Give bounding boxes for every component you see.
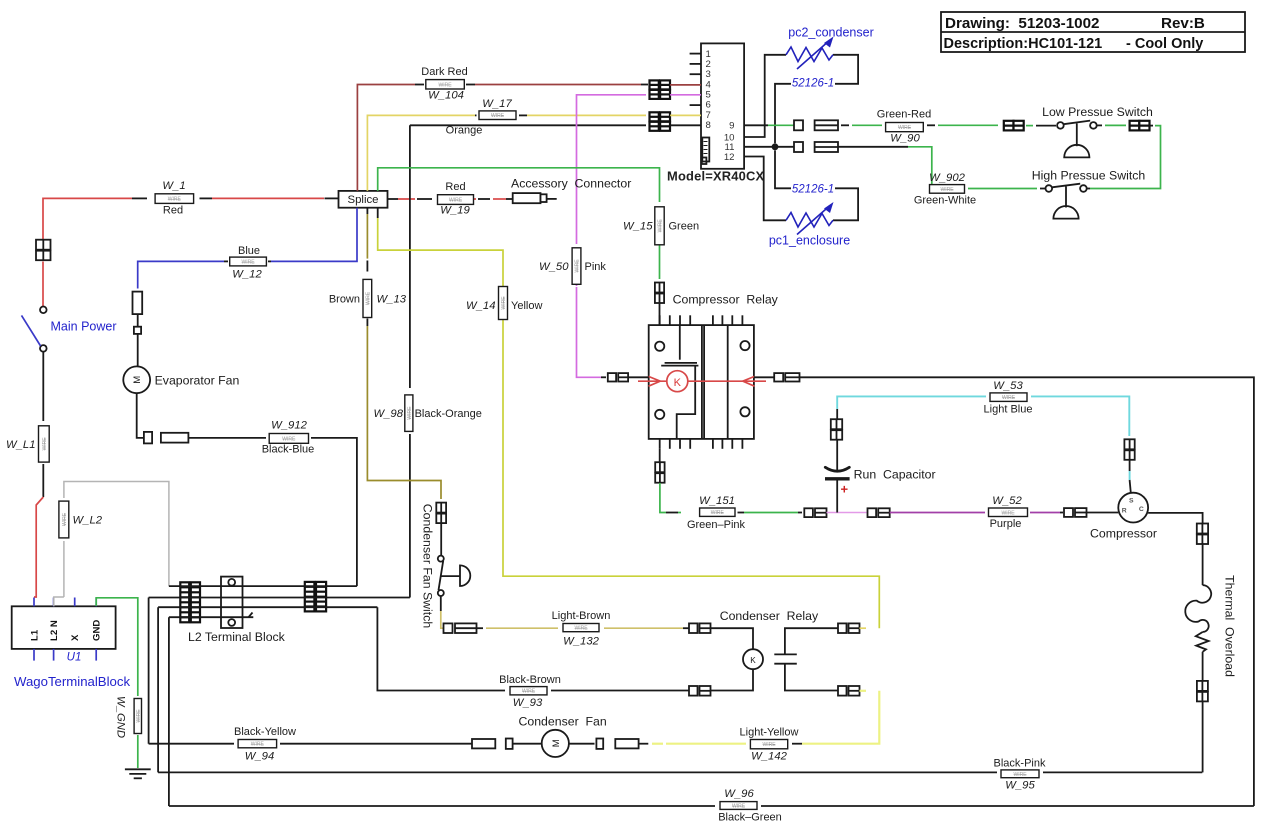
svg-text:W_95: W_95 (1005, 780, 1035, 792)
svg-text:L2 Terminal Block: L2 Terminal Block (188, 630, 286, 644)
svg-text:WIRE: WIRE (438, 82, 452, 88)
svg-text:Thermal Overload: Thermal Overload (1223, 575, 1237, 677)
connector fan switch (436, 503, 446, 523)
svg-text:52126-1: 52126-1 (792, 184, 834, 196)
svg-text:Light-Yellow: Light-Yellow (740, 727, 799, 739)
wire compressor C to overload (1148, 513, 1203, 524)
connector condenser fan right (569, 743, 595, 745)
label W_14 Yellow (499, 287, 508, 320)
wire W_104 Dark Red (357, 85, 415, 191)
connector compressor R (1064, 508, 1087, 517)
label W_12 Blue (230, 257, 267, 266)
connector main power top (36, 240, 51, 261)
svg-text:Condenser Relay: Condenser Relay (720, 609, 819, 623)
svg-text:Rev:B: Rev:B (1161, 15, 1205, 32)
connector stack L2TB left (180, 582, 200, 622)
svg-text:Dark Red: Dark Red (421, 66, 467, 78)
wire relay bottom to W_151 (659, 449, 661, 462)
wire W_90 Green-Red (841, 124, 849, 126)
svg-text:W_17: W_17 (482, 98, 512, 110)
pin 3 stub (690, 73, 701, 75)
wire pin5 Pink W_50 (577, 95, 647, 244)
pin 6 stub (690, 104, 701, 106)
motor M1 Evaporator Fan (123, 366, 150, 393)
svg-text:WIRE: WIRE (42, 437, 48, 451)
label W_142 Light-Yellow (750, 740, 787, 749)
wire pin5 stub (670, 94, 701, 96)
wire W_53 Light Blue (836, 409, 838, 419)
svg-text:W_90: W_90 (890, 133, 920, 145)
svg-text:Green: Green (669, 221, 700, 233)
fuse evaporator (133, 292, 143, 315)
svg-text:WIRE: WIRE (282, 436, 296, 442)
svg-text:W_912: W_912 (271, 420, 308, 432)
svg-text:Pink: Pink (585, 261, 607, 273)
svg-text:Yellow: Yellow (511, 300, 542, 312)
ground (125, 769, 151, 778)
svg-text:WIRE: WIRE (1001, 510, 1015, 516)
connector Accessory Connector (513, 193, 557, 203)
connector run cap top (831, 419, 842, 440)
terminal block L2 Terminal Block (221, 577, 243, 628)
relay K1 coil (667, 371, 688, 392)
wire switch to W_132 (440, 596, 442, 611)
wire relay coil bottom (711, 669, 754, 690)
wire pin10 to pc2_condenser (744, 55, 786, 137)
svg-text:WIRE: WIRE (762, 742, 776, 748)
label W_L1 (39, 426, 50, 462)
svg-text:WIRE: WIRE (365, 291, 371, 305)
svg-text:WIRE: WIRE (940, 187, 954, 193)
wire W_912 Black-Blue (137, 393, 144, 438)
svg-text:W_142: W_142 (751, 751, 788, 763)
svg-text:WIRE: WIRE (501, 296, 507, 310)
svg-text:Light Blue: Light Blue (984, 404, 1033, 416)
connector block pins 4-5 (650, 80, 671, 99)
svg-text:9: 9 (729, 121, 734, 132)
switch S3 Condenser Fan Switch (438, 556, 471, 596)
svg-text:Main Power: Main Power (51, 320, 117, 334)
label W_53 Light Blue (990, 393, 1027, 402)
wire LPS right (1097, 124, 1102, 126)
svg-text:WIRE: WIRE (62, 512, 68, 526)
label W_902 Green-White (930, 185, 965, 194)
wire into relay (659, 303, 661, 325)
svg-text:Light-Brown: Light-Brown (552, 610, 611, 622)
wire pink segment (827, 512, 867, 514)
svg-text:WIRE: WIRE (575, 259, 581, 273)
wire to fan switch (440, 524, 442, 556)
svg-text:WIRE: WIRE (241, 260, 255, 266)
svg-text:Condenser Fan Switch: Condenser Fan Switch (421, 504, 435, 629)
connector condenser fan left (472, 739, 495, 748)
wire pin12 to pc1_enclosure (744, 157, 786, 221)
wire W_132 Light-Brown (477, 627, 484, 629)
svg-text:L1: L1 (30, 629, 41, 641)
label 52126-1 (pc1) (791, 183, 835, 194)
svg-text:WIRE: WIRE (732, 804, 746, 810)
connector relay contact top (838, 623, 860, 633)
capacitor C1 Run Capacitor (825, 440, 850, 513)
wire W_17 Orange (367, 115, 475, 190)
svg-text:X: X (70, 634, 81, 641)
svg-text:Green-White: Green-White (914, 195, 976, 207)
connector overload bottom (1197, 681, 1208, 702)
svg-text:K: K (750, 656, 756, 665)
wire L2TB row2 (149, 597, 410, 599)
wire pc1 right side (775, 150, 858, 220)
svg-text:W_14: W_14 (466, 300, 496, 312)
svg-text:W_104: W_104 (428, 90, 464, 102)
wire to Wago L1 (34, 497, 43, 597)
svg-text:52126-1: 52126-1 (792, 78, 834, 90)
connector block pins 7-8 (650, 112, 671, 131)
wire pin11 stub (744, 146, 794, 148)
svg-text:W_132: W_132 (563, 636, 600, 648)
svg-text:R: R (1122, 508, 1127, 515)
svg-text:Blue: Blue (238, 245, 260, 257)
connector overload top (1197, 524, 1208, 545)
label W_132 Light-Brown (563, 624, 599, 632)
wire relay coil top (711, 628, 754, 649)
connector relay top (655, 283, 664, 304)
connector W_132 left (444, 623, 477, 633)
svg-text:Purple: Purple (990, 518, 1022, 530)
wire W_1 Red (43, 198, 132, 239)
svg-text:Compressor: Compressor (1090, 527, 1157, 541)
svg-text:WIRE: WIRE (251, 742, 265, 748)
wire to switch (42, 262, 44, 307)
wire to LPS (1026, 125, 1033, 127)
wire fuse to motor (137, 314, 139, 327)
svg-text:12: 12 (724, 152, 735, 163)
svg-text:Low Pressue Switch: Low Pressue Switch (1042, 105, 1153, 119)
svg-text:WIRE: WIRE (658, 219, 664, 233)
svg-text:WIRE: WIRE (407, 406, 413, 420)
thermistor pc1_enclosure 52126-1 (786, 202, 834, 235)
svg-text:WIRE: WIRE (136, 709, 142, 723)
svg-text:Brown: Brown (329, 294, 360, 306)
svg-text:Splice: Splice (347, 194, 378, 206)
connector LPS right (1130, 121, 1150, 131)
wire W_L1 (42, 352, 44, 421)
wire W_96 riser (168, 617, 170, 806)
svg-text:W_L1: W_L1 (6, 439, 36, 451)
wire pin4 stub (670, 84, 701, 86)
junction pin11 node (772, 143, 779, 150)
svg-text:Evaporator Fan: Evaporator Fan (155, 374, 240, 388)
connector compressor S (1124, 439, 1134, 460)
wire W_142 Light-Yellow (639, 743, 649, 745)
splice (339, 191, 388, 208)
switch S2 High Pressure Switch (1046, 184, 1087, 219)
wire W_19 Red to accessory (388, 198, 399, 200)
svg-text:pc2_condenser: pc2_condenser (788, 26, 873, 40)
svg-text:8: 8 (706, 120, 711, 131)
relay contact (774, 628, 838, 690)
compressor M3 (1118, 493, 1148, 523)
connector small evap (134, 327, 141, 334)
svg-text:Black-Yellow: Black-Yellow (234, 726, 296, 738)
svg-text:W_L2: W_L2 (73, 515, 103, 527)
wire W_902 Green-White (1040, 188, 1046, 190)
svg-text:WIRE: WIRE (1013, 772, 1027, 778)
svg-text:Green-Red: Green-Red (877, 109, 931, 121)
svg-text:W_50: W_50 (539, 261, 569, 273)
label W_GND (134, 699, 142, 734)
svg-text:Green–Pink: Green–Pink (687, 519, 746, 531)
connector relay coil left (608, 373, 628, 381)
wire W_94 Black-Yellow (149, 743, 234, 745)
svg-text:WIRE: WIRE (898, 125, 912, 131)
svg-text:GND: GND (92, 620, 103, 641)
connector pin11 (794, 142, 838, 152)
label W_93 Black-Brown (510, 687, 547, 695)
label W_1 Red (155, 194, 194, 204)
svg-text:WIRE: WIRE (491, 113, 505, 119)
connector relay coil bottom (689, 686, 711, 696)
wire W_151 Green-Pink (660, 483, 666, 513)
svg-text:Black-Brown: Black-Brown (499, 674, 561, 686)
svg-text:Drawing: 51203-1002: Drawing: 51203-1002 (945, 15, 1100, 32)
connector LPS left (1004, 121, 1024, 131)
svg-text:M: M (551, 739, 562, 747)
wire W_L2 gray (54, 597, 64, 606)
svg-text:Condenser Fan: Condenser Fan (519, 715, 607, 729)
svg-text:Run Capacitor: Run Capacitor (854, 468, 936, 482)
label W_95 Black-Pink (1001, 770, 1039, 778)
svg-text:pc1_enclosure: pc1_enclosure (769, 234, 850, 248)
svg-text:High Pressue Switch: High Pressue Switch (1032, 169, 1146, 183)
label W_15 Green (655, 207, 664, 245)
wire W_95 Black-Pink (158, 771, 997, 773)
pin 2 stub (690, 63, 701, 65)
thermistor pc2_condenser 52126-1 (786, 37, 834, 70)
svg-text:U1: U1 (67, 651, 82, 663)
label 52126-1 (pc2) (791, 77, 835, 88)
wire W_94 riser (148, 598, 150, 744)
svg-text:Description:HC101-121: Description:HC101-121 (944, 36, 1103, 52)
label W_96 Black-Green (720, 802, 757, 810)
wire W_96 Black-Green (169, 805, 715, 807)
svg-text:W_93: W_93 (513, 697, 543, 709)
wire pin9 stub (744, 124, 768, 126)
wire W_15 Green (378, 168, 660, 202)
svg-text:W_1: W_1 (162, 180, 185, 192)
wire W_93 Black-Brown (377, 607, 505, 690)
svg-text:WIRE: WIRE (522, 689, 536, 695)
label W_52 Purple (989, 508, 1028, 517)
svg-text:WIRE: WIRE (711, 510, 725, 516)
svg-text:W_902: W_902 (929, 172, 966, 184)
connector relay contact right (774, 373, 799, 381)
wire pin7 stub (670, 114, 701, 116)
motor M2 Condenser Fan (542, 730, 569, 757)
svg-text:Black-Pink: Black-Pink (994, 758, 1046, 770)
connector relay contact bottom (838, 686, 860, 696)
controller U2 Model=XR40CX (701, 43, 744, 168)
svg-text:WIRE: WIRE (1002, 395, 1016, 401)
label W_90 Green-Red (886, 123, 924, 132)
svg-text:W_52: W_52 (992, 495, 1022, 507)
wire L2TB row1 (169, 585, 357, 587)
switch Main Power (22, 307, 47, 352)
svg-text:Model=XR40CX: Model=XR40CX (667, 169, 765, 184)
wire W_13 Brown (366, 208, 368, 214)
wire W_95 riser (157, 607, 159, 772)
terminal block U1 WagoTerminalBlock (12, 598, 116, 661)
connector run cap right (868, 508, 890, 517)
pin 1 stub (690, 53, 701, 55)
label W_19 Red (438, 195, 474, 205)
svg-text:Black-Blue: Black-Blue (262, 444, 315, 456)
wire LPS to HPS (1150, 125, 1154, 127)
svg-text:L2 N: L2 N (49, 620, 60, 641)
connector relay coil top (689, 623, 711, 633)
svg-text:W_98: W_98 (373, 408, 403, 420)
title block (941, 12, 1245, 52)
svg-text:- Cool Only: - Cool Only (1126, 36, 1203, 52)
thermal overload (1185, 585, 1211, 681)
label W_151 Green-Pink (700, 508, 735, 516)
svg-text:W_96: W_96 (724, 788, 754, 800)
svg-text:Black-Orange: Black-Orange (415, 408, 482, 420)
label W_104 Dark Red (426, 80, 465, 89)
label W_50 Pink (572, 248, 581, 284)
svg-text:W_15: W_15 (623, 221, 653, 233)
svg-text:S: S (1129, 498, 1134, 505)
label W_13 Brown (363, 279, 372, 317)
svg-text:Orange: Orange (446, 125, 483, 137)
wire pc2 right side (775, 55, 858, 143)
svg-text:WagoTerminalBlock: WagoTerminalBlock (14, 674, 130, 689)
svg-text:WIRE: WIRE (574, 626, 588, 632)
svg-text:W_53: W_53 (993, 380, 1023, 392)
label W_98 Black-Orange (405, 395, 413, 432)
wire pin8 black (410, 124, 646, 126)
svg-text:Black–Green: Black–Green (718, 812, 782, 824)
wire to compressor S (1129, 460, 1131, 471)
wire W_12 Blue (271, 208, 357, 262)
svg-text:WIRE: WIRE (449, 198, 463, 204)
svg-text:Accessory Connector: Accessory Connector (511, 177, 631, 191)
svg-text:W_12: W_12 (232, 269, 262, 281)
svg-text:C: C (1139, 506, 1144, 513)
wire relay output to border (800, 377, 1254, 806)
wire yellow to contact top (860, 627, 867, 629)
wire to motor (513, 743, 542, 745)
wire W_98 Black-Orange (409, 125, 411, 388)
connector relay bottom (655, 462, 664, 483)
relay K2 Condenser Relay coil (743, 649, 763, 669)
svg-text:W_19: W_19 (440, 205, 470, 217)
switch S1 Low Pressue Switch (1057, 121, 1097, 158)
connector run cap left (804, 508, 826, 517)
svg-text:W_GND: W_GND (115, 696, 127, 738)
wire L2TB row3 (158, 606, 377, 608)
svg-text:+: + (841, 482, 849, 497)
label W_17 Orange (479, 111, 516, 120)
connector stack L2TB right (305, 582, 326, 612)
svg-text:W_13: W_13 (377, 294, 407, 306)
label W_L2 (59, 501, 69, 538)
svg-text:W_94: W_94 (245, 751, 275, 763)
svg-text:Compressor Relay: Compressor Relay (673, 293, 779, 307)
wire W_52 Purple (890, 512, 985, 514)
label W_94 Black-Yellow (238, 740, 277, 748)
wire W_GND green (96, 598, 138, 696)
relay K1 Compressor Relay body (649, 315, 754, 449)
svg-text:WIRE: WIRE (168, 197, 182, 203)
svg-text:M: M (132, 376, 143, 384)
svg-text:W_151: W_151 (699, 495, 735, 507)
svg-text:Red: Red (445, 181, 465, 193)
svg-text:K: K (674, 377, 682, 389)
relay coil line red (638, 376, 766, 386)
wire overload to W_95 (1202, 702, 1204, 773)
wire W_14 Yellow (377, 208, 379, 218)
connector pin9 (794, 120, 838, 130)
wire L2TB row4 stub (169, 616, 253, 618)
svg-text:Red: Red (163, 205, 183, 217)
wire pin8 stub (670, 124, 701, 126)
label W_912 Black-Blue (269, 434, 308, 444)
